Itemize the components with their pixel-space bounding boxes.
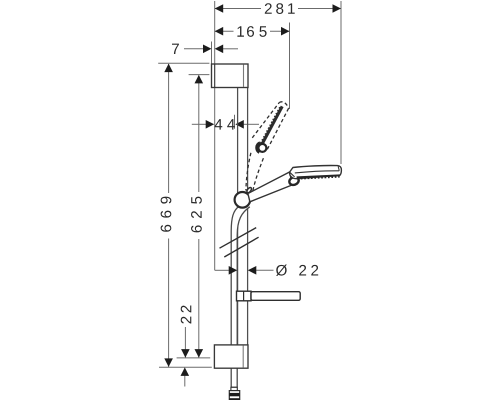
arrowhead 44 left: [206, 120, 215, 129]
dimension line diameter 22 right segment: [256, 269, 273, 271]
dimension line 22 upper segment: [184, 327, 186, 357]
arrowhead 7 left: [203, 45, 212, 54]
extension line: 281 right (front of hand shower): [340, 1, 342, 164]
break mark upper: [220, 228, 257, 249]
dimension 7 left tail: [184, 48, 203, 50]
reference line: upper mounting hole: [189, 74, 210, 76]
dimension line 669 upper segment: [168, 64, 170, 193]
hand shower spray face: [297, 175, 340, 177]
arrowhead 669 top: [164, 64, 173, 73]
dimension line 625 upper segment: [198, 76, 200, 193]
dimension line 669 lower segment: [168, 239, 170, 367]
hand shower handle: [248, 172, 292, 202]
raised hand shower spray nozzles: [257, 106, 280, 150]
hand shower handle-head junction: [290, 172, 295, 177]
dimension line 165 left segment: [215, 30, 234, 32]
dimension 22 lower tail: [184, 372, 186, 387]
wall bar (rod): [238, 88, 248, 345]
arrowhead 165 left: [215, 27, 224, 36]
slider holder clamp lever: [246, 187, 252, 194]
top wall bracket highlight: [243, 65, 245, 88]
hose connector nut: [229, 391, 239, 400]
arrowhead 625 bottom: [195, 349, 204, 358]
label 625 (rotated): [191, 197, 202, 233]
arrowhead 281 left: [215, 4, 224, 13]
label 44: [215, 119, 235, 129]
raised hand shower dashed outline left: [252, 103, 279, 138]
arrowhead 22 lower: [181, 367, 190, 376]
extension line: 44 right: [234, 115, 236, 129]
arrowhead diameter 22 left: [229, 266, 238, 275]
extension line: 165 right (tip of raised hand shower): [289, 23, 291, 110]
dimension line 281 left segment: [215, 8, 261, 10]
label diameter symbol: [276, 265, 287, 276]
arrowhead 281 right: [333, 4, 342, 13]
reference line: top of bar: [158, 62, 209, 64]
arrowhead 22 upper: [181, 349, 190, 358]
raised hand shower dashed handle left: [246, 153, 251, 191]
hand shower spray nozzles: [297, 177, 339, 179]
dimension 44 left tail: [192, 123, 206, 125]
arrowhead 669 bottom: [164, 358, 173, 367]
top wall bracket: [212, 64, 249, 88]
extension line: wall reference plane: [214, 1, 216, 270]
bottom wall bracket: [214, 345, 248, 368]
arrowhead 7 right: [215, 45, 224, 54]
label 22 (diameter): [299, 265, 318, 276]
dimension line 281 right segment: [298, 8, 341, 10]
soap dish clamp divider: [243, 291, 245, 301]
hose connector nut band lower: [229, 398, 239, 400]
arrowhead diameter 22 right: [248, 266, 256, 275]
hand shower head inner edge: [295, 171, 339, 173]
reference line: bottom bracket underside: [159, 366, 212, 368]
extension line: wall plate back edge: [211, 42, 213, 65]
arrowhead 165 right: [281, 27, 290, 36]
raised hand shower dashed outline right: [266, 108, 288, 151]
shower hose: [231, 206, 250, 387]
hose connector nut band upper: [229, 393, 239, 396]
dimension 7 right tail: [223, 48, 238, 50]
raised hand shower ball joint: [258, 144, 266, 152]
raised hand shower dashed top cap: [279, 102, 288, 108]
dimension line diameter 22 left segment: [215, 269, 229, 271]
hose end sleeve: [231, 386, 238, 388]
soap dish clamp: [237, 291, 252, 301]
label 281: [265, 3, 295, 14]
hand shower head right cap edge: [338, 166, 339, 171]
arrowhead 625 top: [195, 75, 204, 84]
label 165: [237, 26, 266, 37]
dimension 44 leader to raised shower: [244, 123, 259, 125]
break mark lower: [224, 237, 258, 257]
raised hand shower dashed handle right: [252, 158, 264, 196]
label 669 (rotated): [161, 197, 172, 232]
raised hand shower spray face band: [259, 106, 282, 150]
soap dish tray: [251, 292, 300, 301]
dimension line 165 right segment: [270, 30, 290, 32]
label 22 (rotated): [181, 306, 192, 324]
hand shower head: [289, 166, 341, 179]
top wall bracket plate edge: [214, 64, 216, 88]
hand shower hose connector cone: [288, 176, 300, 187]
bottom wall bracket highlight: [242, 345, 244, 367]
slider holder knob: [235, 192, 251, 208]
label 7: [172, 44, 179, 54]
reference line: bar lower end: [177, 357, 211, 359]
dimension line 625 lower segment: [198, 239, 200, 357]
arrowhead 44 right: [235, 120, 244, 129]
